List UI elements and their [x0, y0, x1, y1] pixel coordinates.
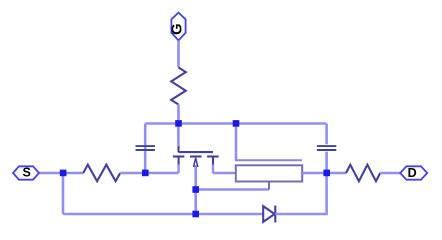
wire node A down to bottom rail [62, 173, 65, 214]
svg-text:S: S [23, 166, 31, 180]
diode D1 [263, 206, 275, 223]
wire node E down to bottom rail node F [194, 190, 197, 215]
node A junction [60, 170, 67, 177]
node F junction [192, 211, 199, 218]
node B junction [142, 170, 149, 177]
node G2 junction [323, 170, 330, 177]
wire top rail [145, 122, 326, 125]
wire right capacitor bottom lead [325, 152, 328, 173]
wire node G2 to resistor R3 [327, 172, 346, 175]
wire S port to node A [39, 172, 64, 175]
wire resistor R2 to node C [177, 105, 180, 124]
node D junction [233, 120, 240, 127]
wire node D down [235, 124, 238, 161]
wire port G to resistor R2 [177, 40, 180, 67]
wire resistor R3 to port D [380, 172, 400, 175]
wire node C to MOSFET gate [177, 124, 180, 147]
wire bottom rail to diode anode [196, 213, 263, 216]
overline of box element U1 [235, 159, 302, 161]
svg-text:D: D [408, 166, 417, 180]
capacitor C2 [317, 146, 336, 150]
wire bottom rail left segment [63, 213, 196, 216]
wire node B to MOSFET source [145, 172, 178, 175]
wire resistor R1 to node B [120, 172, 145, 175]
svg-text:G: G [170, 23, 186, 34]
capacitor C1 [136, 146, 155, 150]
wire diode cathode to bottom right corner [275, 173, 326, 214]
resistor R3 [346, 165, 380, 181]
wire MOSFET bulk down to node E [194, 166, 197, 189]
box element U1 [236, 165, 302, 189]
transistor M1 [173, 146, 219, 173]
wire node A to resistor R1 [63, 172, 83, 175]
port S [13, 166, 39, 180]
resistor R2 (gate) [171, 68, 186, 105]
port G [170, 13, 186, 41]
wire MOSFET drain to box [213, 172, 236, 175]
wire node E to box tap [196, 188, 269, 191]
wire right capacitor top lead [325, 124, 328, 145]
resistor R1 [83, 165, 120, 182]
node E junction [192, 186, 199, 193]
port D [400, 166, 427, 180]
wire left capacitor column node C rail to node B [144, 124, 147, 174]
node C junction [175, 120, 182, 127]
wire box to node G2 [302, 172, 326, 175]
